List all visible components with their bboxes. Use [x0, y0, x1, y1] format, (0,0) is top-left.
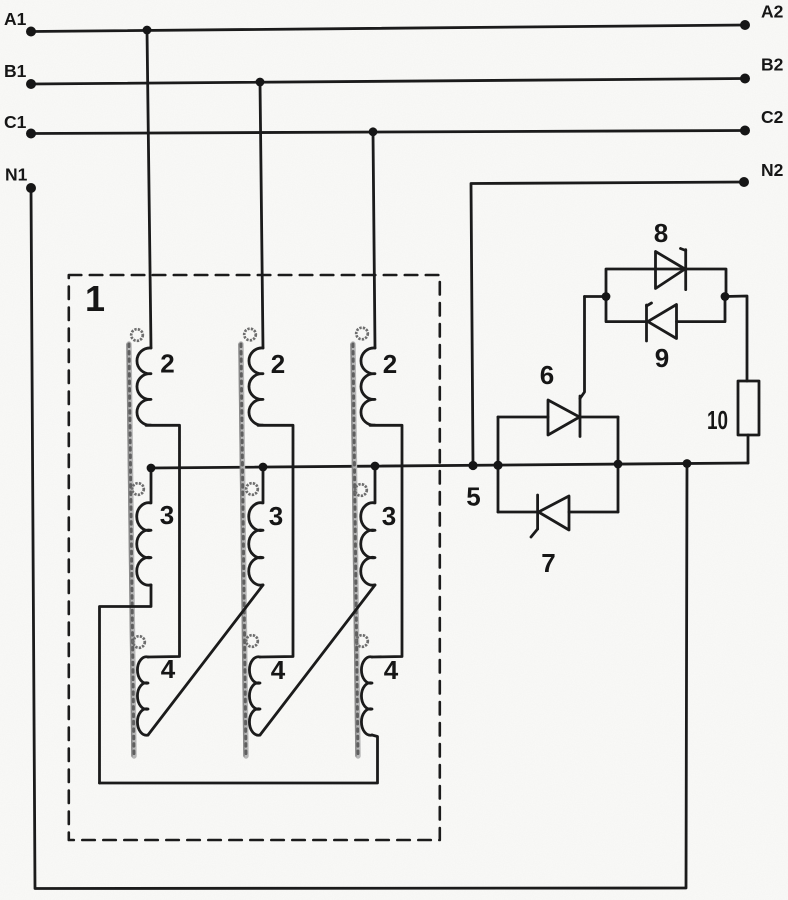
- winding 2 phase B: [249, 348, 263, 425]
- svg-text:4: 4: [271, 655, 286, 685]
- terminal A1: [26, 27, 36, 37]
- wire phase A rail A1-A2: [31, 25, 745, 32]
- terminal B2: [740, 74, 750, 84]
- wire winding2A bottom to winding4A top: [146, 425, 180, 657]
- svg-text:2: 2: [160, 349, 174, 379]
- polarity mark winding 2C: [356, 328, 368, 340]
- wire thyristor 7 branch left: [498, 511, 538, 514]
- polarity mark winding 3B: [246, 483, 258, 495]
- core leg A (shaded): [127, 344, 134, 756]
- junction phase C tap: [369, 127, 378, 136]
- wire resistor 10 bottom lead: [747, 435, 750, 463]
- core leg B (shaded): [239, 344, 246, 756]
- polarity mark winding 4A: [133, 636, 145, 648]
- svg-text:C2: C2: [761, 107, 784, 127]
- wire thyristor 6 cathode branch: [580, 416, 618, 419]
- svg-text:9: 9: [655, 343, 669, 373]
- svg-text:2: 2: [383, 349, 397, 379]
- svg-text:B2: B2: [761, 55, 784, 75]
- polarity mark winding 3C: [355, 484, 367, 496]
- junction node 5: [468, 461, 477, 470]
- polarity mark winding 4B: [246, 635, 258, 647]
- junction bridge left: [493, 461, 502, 470]
- wire winding4C bottom to bottom bus: [100, 735, 378, 783]
- winding 3 phase B: [249, 467, 263, 585]
- terminal C2: [740, 126, 750, 136]
- diode 9: [647, 303, 677, 341]
- wire phase B drop to winding 2: [260, 82, 263, 348]
- winding 3 phase C: [361, 466, 375, 585]
- winding 2 phase C: [361, 348, 375, 425]
- thyristor bridge right rail: [617, 417, 620, 512]
- wire winding2B bottom to winding4B top: [258, 425, 293, 657]
- svg-text:3: 3: [269, 501, 283, 531]
- wire winding3A bottom to left riser: [100, 585, 152, 783]
- wire thyristor 7 branch right: [569, 511, 618, 514]
- junction upper bridge left: [602, 292, 611, 301]
- winding 3 phase A: [137, 468, 151, 585]
- svg-text:A1: A1: [4, 9, 27, 29]
- thyristor 7: [531, 495, 569, 537]
- node line (node 5 bus): [151, 463, 748, 468]
- polarity mark winding 2A: [131, 329, 143, 341]
- resistor 10: [738, 381, 759, 435]
- svg-text:10: 10: [707, 405, 728, 435]
- wire diode 9 branch right: [677, 297, 726, 322]
- svg-text:C1: C1: [4, 112, 27, 132]
- wire diagonal winding4A to winding3B: [148, 585, 263, 735]
- svg-text:2: 2: [271, 349, 285, 379]
- svg-text:5: 5: [466, 482, 480, 512]
- terminal B1: [26, 79, 36, 89]
- svg-text:N1: N1: [5, 165, 28, 185]
- junction phase A tap: [143, 26, 152, 35]
- polarity mark winding 4C: [356, 635, 368, 647]
- svg-text:B1: B1: [4, 61, 27, 81]
- wire diode 8 branch: [606, 269, 726, 297]
- thyristor bridge left rail: [497, 417, 500, 512]
- svg-text:4: 4: [161, 654, 176, 684]
- enclosure 1 dashed box: [69, 275, 440, 840]
- wire upper bridge left link: [585, 295, 607, 298]
- winding 2 phase A: [137, 348, 151, 425]
- svg-text:A2: A2: [761, 2, 784, 22]
- junction bottom loop: [683, 459, 692, 468]
- svg-text:8: 8: [654, 218, 668, 248]
- terminal N1: [26, 183, 36, 193]
- svg-text:7: 7: [541, 548, 555, 578]
- core leg C (shaded): [351, 344, 358, 756]
- junction bridge right: [614, 460, 623, 469]
- terminal A2: [740, 20, 750, 30]
- winding 4 phase C: [361, 657, 372, 735]
- junction winding3C top: [371, 462, 380, 471]
- terminal N2: [739, 177, 749, 187]
- polarity mark winding 3A: [132, 483, 144, 495]
- wire diode 9 branch: [606, 297, 647, 322]
- junction winding3A top: [147, 464, 156, 473]
- wire phase B rail B1-B2: [31, 79, 745, 85]
- wire thyristor 6 anode branch: [498, 416, 548, 419]
- wire N2 lead: [471, 182, 744, 465]
- wire phase C drop to winding 2: [373, 132, 375, 348]
- wire diagonal winding4B to winding3C: [260, 585, 375, 735]
- wire upper bridge to resistor: [725, 296, 747, 381]
- svg-text:4: 4: [384, 655, 399, 685]
- wire phase C rail C1-C2: [31, 131, 745, 134]
- junction phase B tap: [256, 78, 265, 87]
- wire winding2C bottom to winding4C top: [370, 425, 402, 657]
- junction winding3B top: [259, 463, 268, 472]
- thyristor 6: [548, 297, 585, 437]
- svg-text:3: 3: [160, 500, 174, 530]
- svg-text:N2: N2: [761, 160, 784, 180]
- svg-text:1: 1: [85, 278, 105, 319]
- junction upper bridge right: [721, 292, 730, 301]
- svg-text:6: 6: [540, 360, 554, 390]
- terminal C1: [26, 129, 36, 139]
- diode 8: [656, 249, 686, 290]
- wire N1 bottom loop: [31, 188, 687, 889]
- wire phase A drop to winding 2: [147, 30, 151, 348]
- winding 4 phase B: [249, 657, 260, 735]
- winding 4 phase A: [137, 657, 148, 735]
- polarity mark winding 2B: [244, 329, 256, 341]
- svg-text:3: 3: [382, 501, 396, 531]
